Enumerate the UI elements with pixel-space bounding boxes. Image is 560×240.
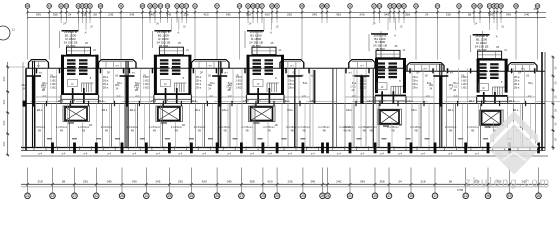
svg-text:EB.a: EB.a [37,109,43,112]
svg-text:B1a: B1a [303,82,308,85]
svg-text:4B: 4B [131,129,134,133]
svg-text:2B-a: 2B-a [514,82,520,86]
svg-text:2-C15mm: 2-C15mm [194,125,205,129]
svg-text:1B: 1B [50,75,53,78]
svg-text:2B-a: 2B-a [103,82,109,86]
svg-text:11: 11 [348,4,351,8]
svg-text:22: 22 [325,4,329,8]
svg-text:1B: 1B [235,75,238,78]
svg-text:11: 11 [153,4,156,8]
svg-text:EB.a: EB.a [195,109,201,112]
svg-text:2B-a: 2B-a [103,75,109,79]
svg-text:2-C: 2-C [135,95,139,98]
svg-text:2B-a: 2B-a [412,82,418,86]
svg-text:a-4: a-4 [227,152,231,156]
svg-text:EB-8: EB-8 [310,100,316,103]
svg-text:2-C: 2-C [228,95,232,98]
svg-text:28: 28 [251,4,255,8]
svg-text:aB: aB [351,89,354,92]
svg-text:300: 300 [2,76,6,81]
svg-text:318: 318 [82,13,87,17]
svg-text:19: 19 [508,194,512,198]
svg-text:27: 27 [215,4,219,8]
svg-text:1B: 1B [143,75,146,78]
svg-text:17: 17 [185,4,189,8]
svg-text:12: 12 [12,28,16,32]
svg-text:14: 14 [414,4,418,8]
svg-text:EB.a: EB.a [102,109,108,112]
svg-text:a-4: a-4 [202,152,206,156]
svg-text:a-4: a-4 [337,152,341,156]
svg-text:236: 236 [287,180,292,184]
svg-text:1B: 1B [208,75,211,78]
svg-text:2B-a: 2B-a [514,86,520,90]
svg-text:w-t: w-t [37,64,41,67]
svg-text:2-C: 2-C [426,95,430,98]
svg-text:1B: 1B [501,27,504,29]
svg-text:A: A [270,31,272,35]
svg-text:4B: 4B [471,129,474,133]
svg-text:1B: 1B [398,124,401,127]
svg-text:2-C15mm: 2-C15mm [298,125,309,129]
svg-text:2-C15mm: 2-C15mm [149,125,160,129]
svg-text:1B: 1B [89,124,92,127]
svg-text:aB: aB [453,89,456,92]
svg-text:a-4: a-4 [311,152,315,156]
svg-text:58: 58 [94,13,98,17]
svg-text:2B-a: 2B-a [196,82,202,86]
svg-text:2B-a: 2B-a [196,86,202,90]
svg-text:420: 420 [202,180,207,184]
svg-text:EB-8: EB-8 [367,100,373,103]
svg-text:w-t: w-t [224,72,228,75]
svg-text:DF: DF [107,72,111,75]
svg-text:318: 318 [446,13,451,17]
svg-text:458: 458 [533,7,538,11]
svg-text:21: 21 [88,4,92,8]
svg-text:2-C: 2-C [42,95,46,98]
svg-text:29: 29 [168,194,172,198]
svg-text:2-C15mm: 2-C15mm [34,125,45,129]
svg-text:2B-a: 2B-a [103,79,109,83]
svg-text:12: 12 [159,4,163,8]
svg-text:w-t: w-t [132,72,136,75]
svg-text:345: 345 [36,13,41,17]
svg-text:DF: DF [518,72,522,75]
svg-text:4B: 4B [347,129,350,133]
svg-text:1B: 1B [90,27,93,29]
svg-text:2-C15mm: 2-C15mm [263,125,274,129]
svg-text:236: 236 [83,180,88,184]
svg-text:a-4: a-4 [475,152,479,156]
svg-text:a-4: a-4 [421,152,425,156]
svg-text:17: 17 [387,194,391,198]
svg-text:a-4: a-4 [132,152,136,156]
svg-text:19: 19 [478,4,482,8]
svg-text:1B: 1B [526,75,529,78]
svg-text:2B-a: 2B-a [196,79,202,83]
svg-text:2-C15mm: 2-C15mm [171,125,182,129]
svg-text:2-C: 2-C [454,95,458,98]
svg-text:w-t: w-t [450,72,454,75]
svg-text:24: 24 [326,194,330,198]
svg-text:13: 13 [457,4,461,8]
svg-text:236: 236 [108,13,113,17]
svg-text:20: 20 [275,194,279,198]
svg-text:23: 23 [175,4,179,8]
svg-text:318: 318 [37,180,42,184]
svg-text:300: 300 [2,141,6,146]
svg-text:28: 28 [472,4,476,8]
svg-text:EB.a: EB.a [222,109,228,112]
svg-text:2-C15mm: 2-C15mm [339,125,350,129]
svg-text:26: 26 [141,4,145,8]
svg-text:240: 240 [524,13,529,17]
svg-text:420: 420 [265,13,270,17]
svg-text:420: 420 [336,13,341,17]
svg-text:2B-a: 2B-a [288,86,294,90]
svg-text:25: 25 [215,194,219,198]
svg-text:28: 28 [120,194,124,198]
svg-text:27: 27 [488,4,492,8]
svg-text:w-t: w-t [360,64,364,67]
svg-text:B1a: B1a [528,82,533,85]
svg-text:21: 21 [26,194,30,198]
svg-text:420: 420 [267,180,272,184]
svg-text:4B: 4B [369,129,372,133]
svg-text:zhulong.com: zhulong.com [465,177,551,189]
svg-text:2-C15mm: 2-C15mm [358,125,369,129]
svg-text:300: 300 [2,120,6,125]
svg-text:4758: 4758 [457,188,464,192]
svg-text:4B: 4B [449,129,452,133]
svg-text:w-1: w-1 [352,75,357,78]
svg-text:4B: 4B [414,129,417,133]
svg-text:236: 236 [183,13,188,17]
svg-text:2B-a: 2B-a [412,75,418,79]
svg-text:1B: 1B [400,27,403,29]
svg-text:4B: 4B [175,129,178,133]
svg-text:2-C15mm: 2-C15mm [387,125,398,129]
svg-text:A: A [496,35,498,39]
svg-text:EB-8: EB-8 [509,100,515,103]
svg-text:w-t: w-t [424,67,428,70]
svg-text:2-C15mm: 2-C15mm [101,125,112,129]
svg-text:240: 240 [149,13,154,17]
svg-text:24: 24 [425,13,429,17]
svg-text:EB-8: EB-8 [407,100,413,103]
svg-text:358: 358 [250,180,255,184]
svg-text:2-C15mm: 2-C15mm [56,125,67,129]
svg-text:27: 27 [240,194,244,198]
svg-text:EB-8: EB-8 [98,100,104,103]
svg-text:4B: 4B [38,129,41,133]
svg-text:240: 240 [336,180,341,184]
svg-text:EB-8: EB-8 [151,100,157,103]
svg-text:2-C15mm: 2-C15mm [241,125,252,129]
svg-text:28: 28 [486,194,490,198]
svg-text:EB.a: EB.a [346,109,352,112]
svg-text:17: 17 [433,194,437,198]
svg-text:a-4: a-4 [156,152,160,156]
svg-text:11: 11 [145,194,149,198]
svg-text:24: 24 [301,194,305,198]
svg-text:240: 240 [132,180,137,184]
svg-text:4B: 4B [343,129,346,133]
svg-text:a-4: a-4 [84,152,88,156]
svg-text:345: 345 [129,13,134,17]
svg-text:58: 58 [468,13,472,17]
svg-text:EB.a: EB.a [448,109,454,112]
svg-text:a-4: a-4 [107,152,111,156]
svg-text:4B: 4B [267,129,270,133]
svg-text:358: 358 [246,13,251,17]
svg-text:w-t: w-t [39,72,43,75]
svg-text:2-C15mm: 2-C15mm [78,125,89,129]
svg-text:27: 27 [73,194,77,198]
svg-text:23: 23 [261,194,265,198]
svg-text:2B-a: 2B-a [412,79,418,83]
svg-text:20: 20 [26,4,30,8]
svg-text:1B: 1B [182,124,185,127]
svg-text:2-C15mm: 2-C15mm [467,125,478,129]
svg-text:1B: 1B [183,27,186,29]
svg-text:a-4: a-4 [398,152,402,156]
svg-text:236: 236 [488,13,493,17]
svg-text:24: 24 [68,13,72,17]
svg-text:16: 16 [148,4,152,8]
svg-text:A: A [178,31,180,35]
svg-text:4B: 4B [60,129,63,133]
svg-text:16: 16 [190,194,194,198]
svg-text:A: A [85,31,87,35]
svg-text:EB-8: EB-8 [58,100,64,103]
svg-text:23: 23 [238,4,242,8]
svg-text:a-4: a-4 [380,152,384,156]
svg-text:28: 28 [300,4,304,8]
svg-text:345: 345 [384,13,389,17]
svg-text:a-4: a-4 [62,152,66,156]
svg-text:4B: 4B [105,129,108,133]
svg-text:11: 11 [378,4,381,8]
svg-text:a-4: a-4 [449,152,453,156]
svg-text:14: 14 [48,4,52,8]
svg-text:EB-8: EB-8 [283,100,289,103]
svg-text:58: 58 [62,180,66,184]
svg-text:345: 345 [227,180,232,184]
svg-text:345: 345 [312,13,317,17]
svg-text:23: 23 [402,4,406,8]
svg-text:2-C15mm: 2-C15mm [410,125,421,129]
svg-text:236: 236 [287,13,292,17]
svg-text:345: 345 [360,180,365,184]
svg-text:a-4: a-4 [361,152,365,156]
svg-text:28: 28 [514,4,518,8]
svg-text:358: 358 [53,13,58,17]
svg-text:DF: DF [416,72,420,75]
svg-text:420: 420 [203,13,208,17]
svg-text:24: 24 [398,180,402,184]
svg-text:23: 23 [166,4,170,8]
svg-text:17: 17 [372,4,376,8]
svg-text:4B: 4B [223,129,226,133]
svg-text:w-t: w-t [209,64,213,67]
svg-text:4B: 4B [153,129,156,133]
svg-text:2-C: 2-C [116,95,120,98]
svg-text:28: 28 [499,4,503,8]
svg-text:4B: 4B [82,129,85,133]
svg-text:w-1: w-1 [311,75,316,78]
svg-text:4B: 4B [322,129,325,133]
svg-text:a-4: a-4 [179,152,183,156]
svg-text:11: 11 [65,4,68,8]
svg-text:26: 26 [537,194,541,198]
svg-text:a-4: a-4 [288,152,292,156]
svg-text:28: 28 [320,4,324,8]
svg-text:358: 358 [405,13,410,17]
svg-text:28: 28 [321,194,325,198]
svg-text:2B-a: 2B-a [412,86,418,90]
svg-text:2-C15mm: 2-C15mm [445,125,456,129]
svg-text:358: 358 [379,180,384,184]
svg-text:28: 28 [99,4,103,8]
svg-text:345: 345 [310,180,315,184]
svg-text:EB-8: EB-8 [191,100,197,103]
svg-text:2B-a: 2B-a [288,82,294,86]
svg-text:4B: 4B [290,129,293,133]
svg-text:1B: 1B [461,75,464,78]
svg-text:17: 17 [260,4,264,8]
svg-text:11: 11 [119,4,122,8]
svg-text:240: 240 [359,13,364,17]
svg-text:EB.a: EB.a [411,109,417,112]
svg-text:21: 21 [348,194,352,198]
svg-text:14: 14 [392,4,396,8]
svg-text:15: 15 [409,194,413,198]
svg-text:22: 22 [59,4,63,8]
svg-text:2-C15mm: 2-C15mm [318,125,329,129]
svg-text:a-4: a-4 [250,152,254,156]
svg-text:A: A [394,34,396,38]
svg-text:12: 12 [193,4,197,8]
svg-text:4B: 4B [245,129,248,133]
svg-text:19: 19 [373,194,377,198]
svg-text:4B: 4B [198,129,201,133]
svg-text:2B-a: 2B-a [103,86,109,90]
svg-text:w-t: w-t [116,64,120,67]
svg-text:2B-a: 2B-a [288,79,294,83]
svg-text:13: 13 [51,194,55,198]
svg-text:12: 12 [464,194,468,198]
svg-text:2-C: 2-C [302,95,306,98]
svg-text:236: 236 [178,180,183,184]
svg-text:11: 11 [275,4,278,8]
svg-text:2B-a: 2B-a [514,75,520,79]
svg-text:EB-8: EB-8 [243,100,249,103]
svg-text:13: 13 [256,4,260,8]
svg-text:2-C: 2-C [528,95,532,98]
svg-text:4B: 4B [391,129,394,133]
svg-text:4B: 4B [302,129,305,133]
svg-text:11: 11 [246,4,249,8]
svg-text:2-C: 2-C [209,95,213,98]
svg-text:345: 345 [166,13,171,17]
svg-text:12: 12 [180,4,184,8]
svg-text:EB-8: EB-8 [469,100,475,103]
svg-text:a-4: a-4 [38,152,42,156]
svg-text:1B: 1B [115,75,118,78]
svg-text:1B: 1B [274,124,277,127]
svg-text:58: 58 [449,180,453,184]
svg-text:300: 300 [2,99,6,104]
svg-text:28: 28 [270,4,274,8]
svg-text:w-t: w-t [521,67,525,70]
svg-text:12: 12 [95,194,99,198]
svg-text:345: 345 [155,180,160,184]
svg-text:DF: DF [200,72,204,75]
svg-text:318: 318 [420,180,425,184]
svg-text:EB.a: EB.a [287,109,293,112]
svg-text:1B: 1B [424,75,427,78]
svg-text:19: 19 [397,4,401,8]
svg-text:345: 345 [107,180,112,184]
svg-text:4B: 4B [362,129,365,133]
svg-text:2B-a: 2B-a [196,75,202,79]
svg-text:345: 345 [226,13,231,17]
svg-text:a-4: a-4 [268,152,272,156]
svg-text:1B: 1B [276,27,279,29]
svg-text:27: 27 [436,4,440,8]
svg-text:345: 345 [506,13,511,17]
svg-text:2B-a: 2B-a [514,79,520,83]
svg-text:EB.a: EB.a [130,109,136,112]
svg-text:w-t: w-t [290,64,294,67]
svg-text:2-C15mm: 2-C15mm [286,125,297,129]
